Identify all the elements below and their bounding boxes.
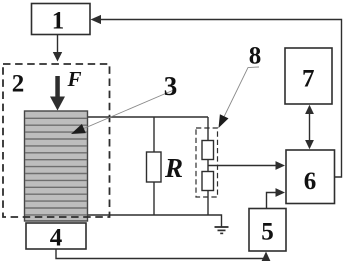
svg-text:5: 5 <box>261 219 274 246</box>
svg-text:7: 7 <box>302 65 315 92</box>
svg-text:F: F <box>66 67 81 91</box>
svg-text:2: 2 <box>12 70 25 97</box>
svg-text:8: 8 <box>249 42 262 69</box>
svg-text:1: 1 <box>52 7 65 34</box>
svg-text:R: R <box>164 153 183 183</box>
svg-text:4: 4 <box>50 224 63 251</box>
svg-text:3: 3 <box>164 71 178 101</box>
svg-text:6: 6 <box>304 168 317 195</box>
